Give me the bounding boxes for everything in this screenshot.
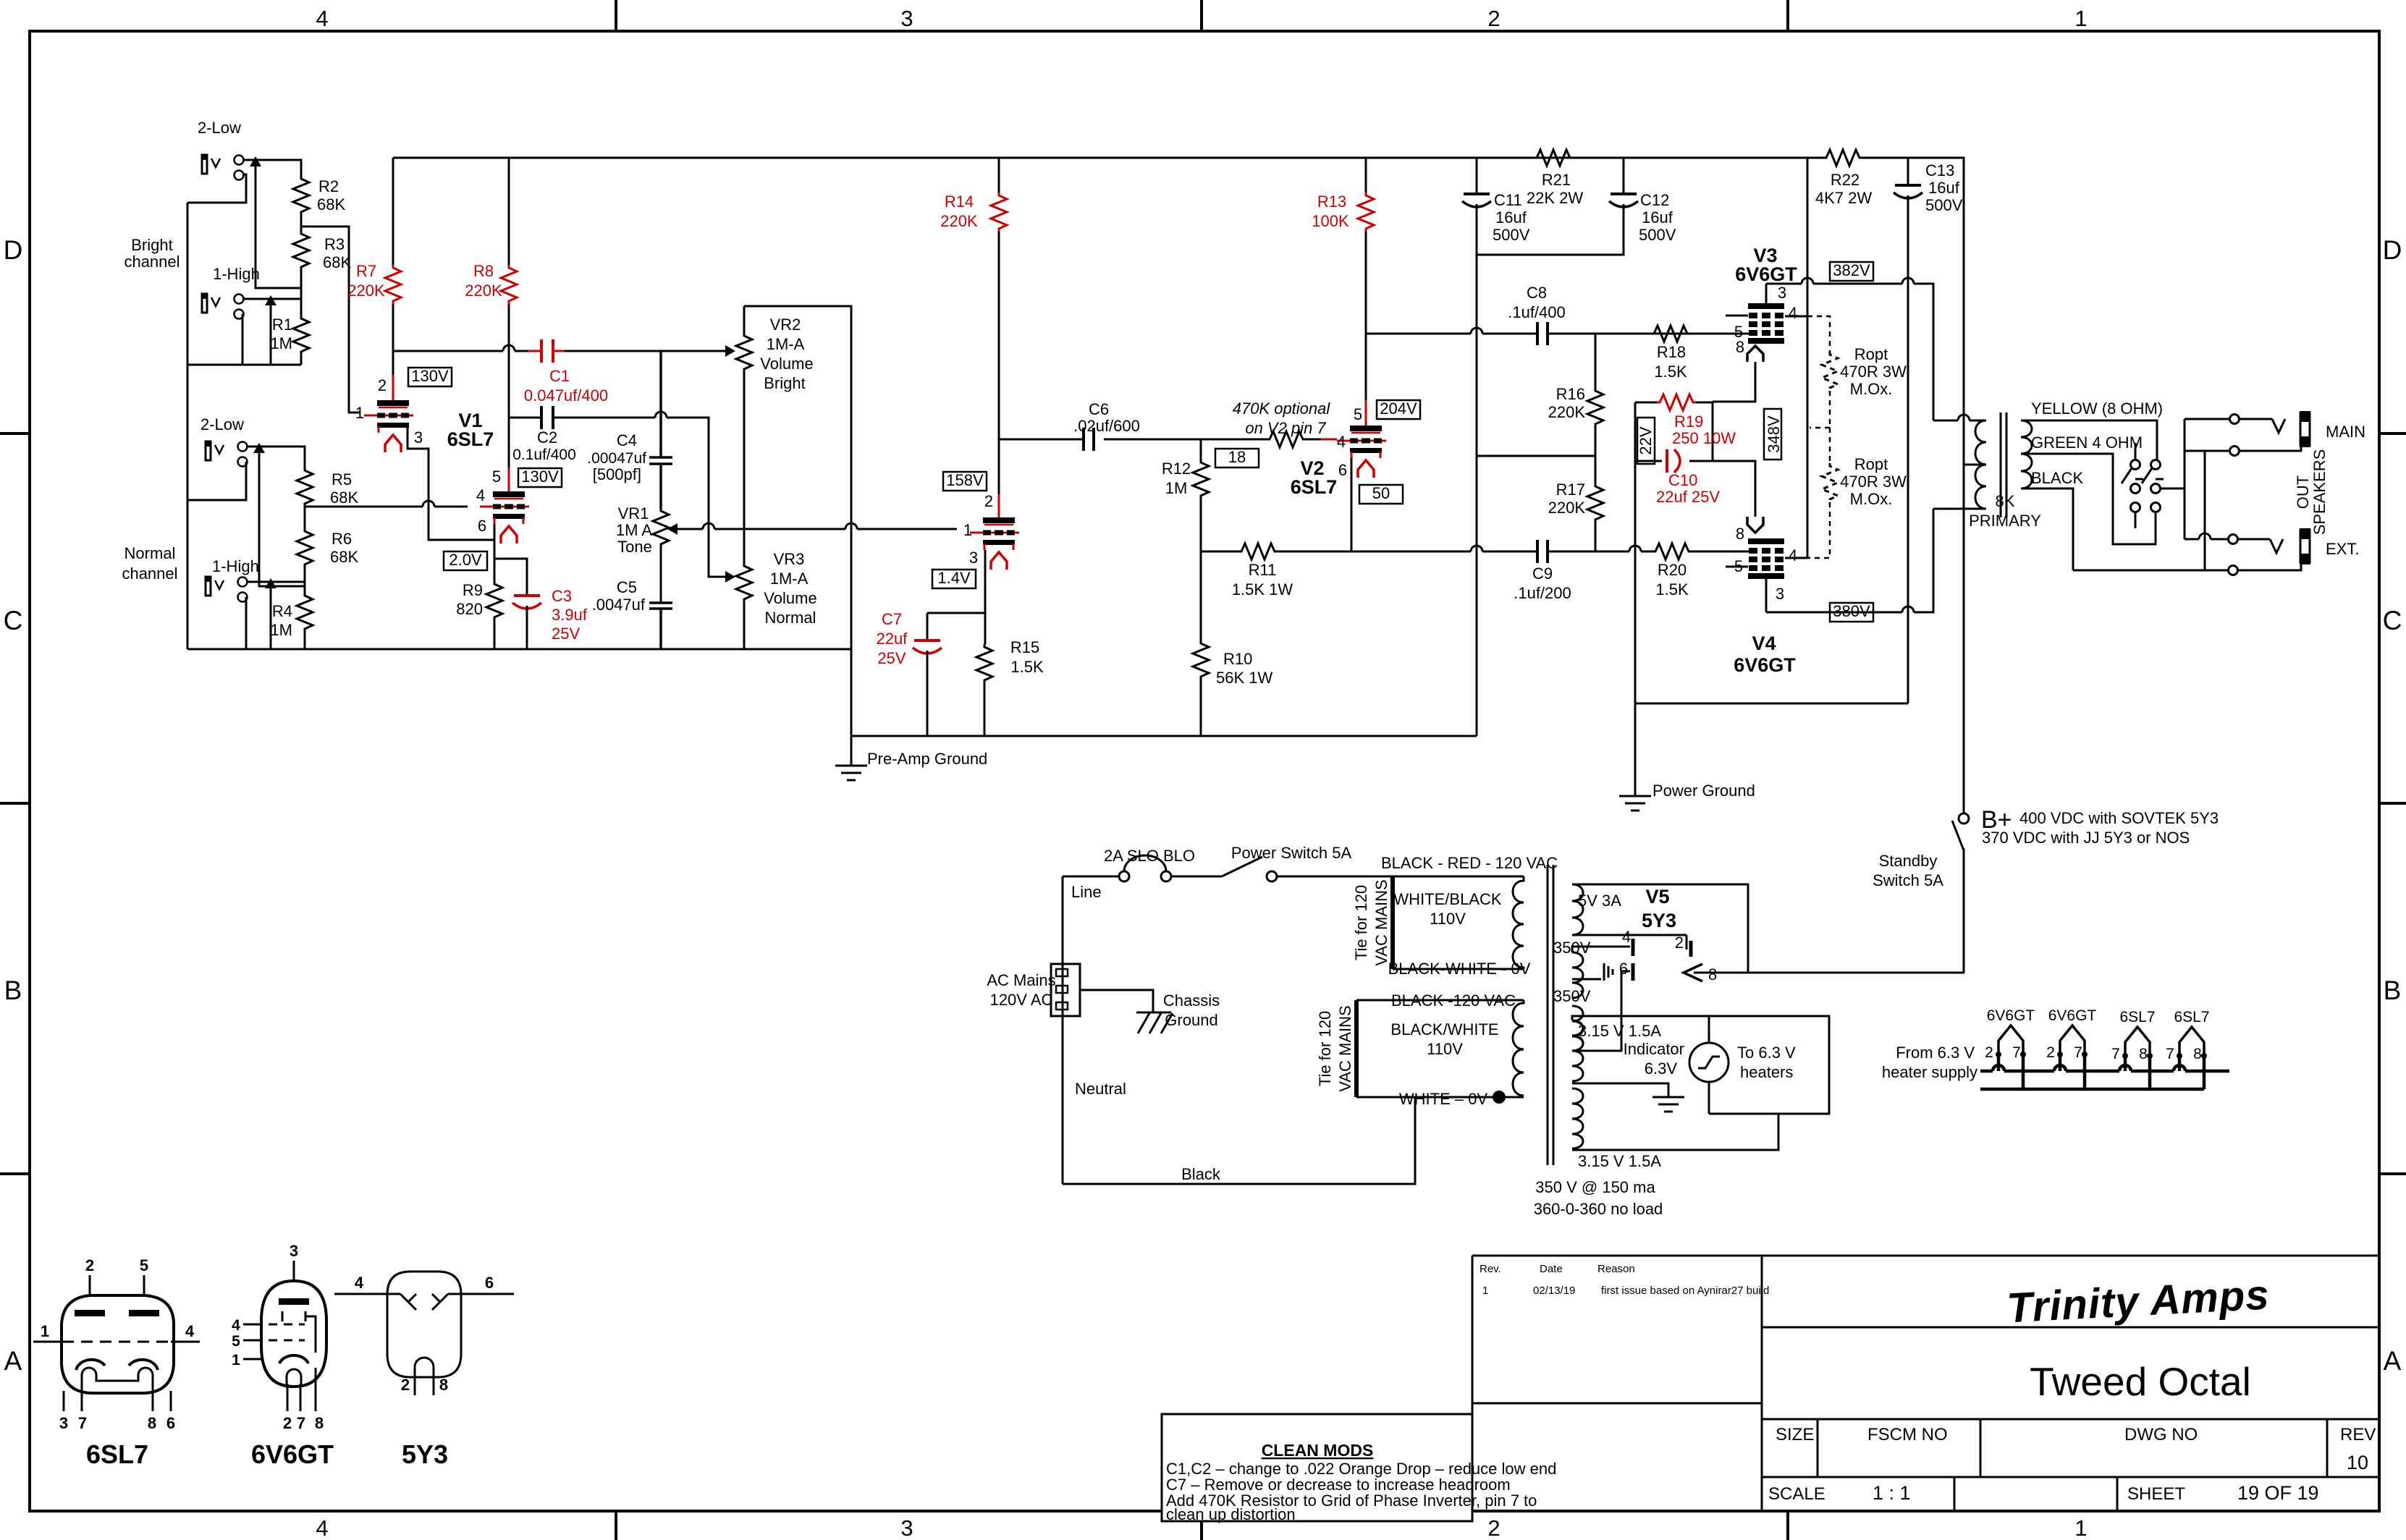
svg-text:VR2: VR2 bbox=[770, 316, 801, 334]
svg-text:8K: 8K bbox=[1996, 492, 2015, 510]
svg-text:Tone: Tone bbox=[617, 538, 652, 556]
resistor R22 bbox=[1815, 150, 1872, 207]
svg-text:25V: 25V bbox=[552, 625, 580, 643]
neutral bottom wire bbox=[1063, 1097, 1415, 1184]
svg-text:BLACK: BLACK bbox=[2031, 469, 2083, 487]
wire R8 bottom to V1b plate bbox=[508, 304, 510, 467]
svg-text:REV: REV bbox=[2340, 1425, 2376, 1444]
svg-text:PRIMARY: PRIMARY bbox=[1969, 512, 2041, 530]
svg-text:1.4V: 1.4V bbox=[937, 569, 971, 587]
svg-text:channel: channel bbox=[122, 564, 177, 583]
wire VR1 wiper to V2a grid bbox=[672, 523, 957, 529]
tube V1 triode A bbox=[355, 376, 423, 452]
resistor R12 bbox=[1162, 439, 1209, 551]
svg-text:7: 7 bbox=[2166, 1046, 2174, 1062]
wire BLACK bbox=[2021, 488, 2227, 570]
svg-text:C13: C13 bbox=[1925, 161, 1954, 179]
svg-text:6SL7: 6SL7 bbox=[86, 1439, 148, 1469]
svg-text:MAIN: MAIN bbox=[2326, 423, 2365, 441]
svg-text:R6: R6 bbox=[332, 530, 352, 548]
svg-text:C10: C10 bbox=[1668, 471, 1697, 489]
svg-text:5: 5 bbox=[492, 467, 501, 486]
wire jack4 tip to R6/R4 junction bbox=[246, 567, 305, 593]
wire V3 plate to 382V rail bbox=[1765, 284, 1768, 303]
capacitor C3 electrolytic bbox=[512, 587, 588, 649]
svg-text:7: 7 bbox=[78, 1414, 87, 1432]
resistor 470K optional bbox=[1201, 399, 1330, 447]
capacitor C4 bbox=[587, 351, 672, 508]
svg-text:22uf: 22uf bbox=[877, 630, 908, 648]
svg-text:6SL7: 6SL7 bbox=[2119, 1009, 2155, 1025]
resistor R3 bbox=[293, 231, 351, 271]
svg-text:C4: C4 bbox=[617, 431, 637, 449]
svg-text:VAC MAINS: VAC MAINS bbox=[1336, 1005, 1354, 1091]
svg-text:B: B bbox=[4, 976, 22, 1005]
wire R5/R6 junction + V1b grid line bbox=[305, 507, 468, 528]
svg-text:Ropt: Ropt bbox=[1854, 455, 1888, 473]
svg-text:To 6.3 V: To 6.3 V bbox=[1737, 1044, 1796, 1062]
svg-text:first issue based on Aynirar27: first issue based on Aynirar27 build bbox=[1601, 1285, 1769, 1297]
jack3 shorting contact arrow bbox=[259, 447, 305, 586]
svg-text:10: 10 bbox=[2347, 1452, 2368, 1473]
svg-text:3.9uf: 3.9uf bbox=[552, 606, 588, 624]
svg-text:6: 6 bbox=[166, 1414, 175, 1432]
svg-text:C: C bbox=[4, 606, 23, 635]
svg-text:3: 3 bbox=[900, 6, 913, 31]
svg-text:C9: C9 bbox=[1532, 564, 1553, 583]
wire YELLOW 8 OHM bbox=[2021, 420, 2157, 460]
svg-text:16uf: 16uf bbox=[1495, 208, 1527, 227]
svg-text:R17: R17 bbox=[1556, 481, 1585, 499]
svg-text:R13: R13 bbox=[1317, 192, 1346, 211]
svg-text:heater supply: heater supply bbox=[1882, 1063, 1977, 1081]
wire V3 cathode to R19 bbox=[1713, 362, 1755, 402]
svg-text:Switch 5A: Switch 5A bbox=[1873, 871, 1943, 889]
HV center tap ground bbox=[1572, 963, 1613, 981]
svg-text:C3: C3 bbox=[552, 587, 572, 605]
svg-text:3: 3 bbox=[290, 1242, 298, 1260]
jack1 shorting contact arrow bbox=[256, 160, 301, 288]
B+ distribution top rail bbox=[393, 158, 1964, 813]
svg-text:C5: C5 bbox=[617, 578, 637, 596]
resistor R2 bbox=[293, 176, 345, 215]
power transformer primary coils bbox=[1356, 969, 1524, 1097]
wire jack1 sleeve to bus bbox=[187, 174, 246, 203]
svg-text:500V: 500V bbox=[1925, 196, 1963, 214]
voltage box 158V bbox=[943, 471, 987, 491]
voltage box 348V vertical bbox=[1764, 409, 1783, 460]
svg-text:R3: R3 bbox=[324, 235, 345, 253]
svg-text:.02uf/600: .02uf/600 bbox=[1073, 417, 1140, 435]
380V plate rail V4 bbox=[1766, 509, 1933, 612]
svg-text:Chassis: Chassis bbox=[1163, 991, 1220, 1010]
svg-text:DWG NO: DWG NO bbox=[2124, 1425, 2198, 1444]
svg-text:2: 2 bbox=[401, 1376, 410, 1394]
svg-text:Normal: Normal bbox=[124, 544, 176, 562]
svg-text:120V AC: 120V AC bbox=[990, 991, 1053, 1009]
svg-text:820: 820 bbox=[456, 600, 483, 618]
heater chain 6SL7 tube 4 bbox=[2166, 1009, 2209, 1062]
svg-text:BLACK/WHITE: BLACK/WHITE bbox=[1390, 1020, 1498, 1038]
wire V4 pin4 to screen vertical bbox=[1785, 557, 1807, 559]
svg-text:110V: 110V bbox=[1430, 910, 1466, 928]
svg-text:Volume: Volume bbox=[760, 355, 813, 373]
svg-text:8: 8 bbox=[1708, 965, 1717, 983]
svg-text:C7: C7 bbox=[882, 610, 902, 628]
svg-text:4: 4 bbox=[232, 1317, 240, 1334]
wire R16/R17 junction to dropper bbox=[1477, 455, 1595, 457]
Ropt dashed resistor upper bbox=[1807, 316, 1838, 463]
svg-text:R16: R16 bbox=[1556, 385, 1585, 403]
normal channel input jack 2-Low bbox=[200, 415, 248, 467]
svg-text:220K: 220K bbox=[1548, 499, 1586, 517]
heater chain 6V6GT tube 2 bbox=[2046, 1007, 2096, 1061]
wire V4 cathode from C10 bbox=[1713, 461, 1755, 517]
wire C11 bottom / main dropper vertical bbox=[1476, 204, 1478, 736]
6.3V center tap ground bbox=[1572, 1083, 1668, 1097]
svg-text:1: 1 bbox=[355, 404, 364, 422]
svg-text:Black: Black bbox=[1181, 1165, 1221, 1183]
svg-text:VAC MAINS: VAC MAINS bbox=[1372, 879, 1390, 965]
title block bbox=[1762, 1327, 2379, 1511]
resistor R4 bbox=[270, 593, 313, 639]
382V plate rail bbox=[1766, 278, 1933, 420]
svg-text:6SL7: 6SL7 bbox=[2174, 1009, 2209, 1025]
6SL7 base diagram bbox=[62, 1295, 174, 1393]
wire speaker common vertical bbox=[2184, 419, 2186, 539]
voltage box 130V at V1b bbox=[518, 467, 562, 487]
wire C1 line V1a plate to VR2 bbox=[393, 345, 730, 351]
Pre-Amp ground symbol bbox=[835, 736, 987, 780]
svg-text:.00047uf: .00047uf bbox=[587, 450, 646, 467]
6V6GT base diagram bbox=[232, 1242, 334, 1469]
svg-text:OUT: OUT bbox=[2294, 475, 2312, 509]
svg-text:WHITE/BLACK: WHITE/BLACK bbox=[1393, 890, 1501, 908]
svg-text:3.15 V 1.5A: 3.15 V 1.5A bbox=[1578, 1152, 1661, 1170]
svg-text:350V: 350V bbox=[1553, 987, 1591, 1005]
svg-text:1-High: 1-High bbox=[213, 265, 260, 283]
svg-text:16uf: 16uf bbox=[1928, 179, 1960, 197]
svg-text:7: 7 bbox=[2074, 1044, 2082, 1061]
svg-text:5Y3: 5Y3 bbox=[1642, 910, 1676, 931]
svg-text:SPEAKERS: SPEAKERS bbox=[2310, 449, 2329, 536]
wire R3 to R1 bbox=[300, 215, 303, 316]
wire line vertical bbox=[1062, 876, 1064, 1184]
svg-text:220K: 220K bbox=[940, 212, 978, 230]
svg-text:R1: R1 bbox=[272, 316, 292, 334]
wire V2a cathode to R15/C7 bbox=[927, 550, 985, 644]
svg-text:2: 2 bbox=[1985, 1044, 1993, 1061]
jack2 shorting contact arrow bbox=[270, 299, 272, 365]
wire C8 line from V2b plate to V3 grid bbox=[1366, 328, 1751, 334]
svg-text:68K: 68K bbox=[317, 195, 345, 213]
svg-text:1: 1 bbox=[2074, 1515, 2087, 1540]
svg-text:Volume: Volume bbox=[764, 589, 816, 607]
svg-text:SHEET: SHEET bbox=[2127, 1484, 2185, 1504]
svg-text:1: 1 bbox=[1482, 1285, 1488, 1297]
resistor R14 bbox=[940, 158, 1007, 232]
svg-text:7: 7 bbox=[2012, 1044, 2021, 1061]
5Y3 base diagram bbox=[334, 1272, 514, 1469]
svg-text:R7: R7 bbox=[356, 262, 376, 280]
resistor R9 bbox=[456, 581, 502, 620]
svg-text:8: 8 bbox=[315, 1414, 324, 1432]
svg-text:1M A: 1M A bbox=[616, 521, 652, 539]
svg-text:R4: R4 bbox=[272, 602, 292, 620]
svg-text:3: 3 bbox=[900, 1515, 913, 1540]
svg-text:Line: Line bbox=[1071, 883, 1102, 901]
svg-text:AC Mains: AC Mains bbox=[987, 971, 1055, 989]
preamp ground rail left section bbox=[187, 649, 1477, 736]
svg-text:Neutral: Neutral bbox=[1075, 1080, 1126, 1098]
wire jack2 sleeve down bbox=[242, 314, 244, 365]
capacitor C5 bbox=[592, 578, 672, 649]
5Y3 plate pin 6 bbox=[1572, 971, 1630, 1051]
svg-text:220K: 220K bbox=[1548, 403, 1586, 421]
svg-text:EXT.: EXT. bbox=[2326, 540, 2359, 558]
svg-text:8: 8 bbox=[2193, 1046, 2202, 1062]
power transformer core bbox=[1548, 865, 1553, 1165]
svg-text:1M-A: 1M-A bbox=[767, 335, 805, 353]
revision table bbox=[1472, 1256, 2379, 1511]
svg-text:Tie for 120: Tie for 120 bbox=[1352, 885, 1370, 960]
wire C6 line from V2a plate bbox=[999, 439, 1201, 441]
svg-text:1-High: 1-High bbox=[212, 557, 259, 575]
svg-text:4: 4 bbox=[355, 1274, 364, 1292]
svg-text:C1: C1 bbox=[549, 367, 570, 385]
svg-text:R5: R5 bbox=[332, 470, 352, 488]
svg-text:5V 3A: 5V 3A bbox=[1578, 892, 1621, 910]
resistor R5 bbox=[297, 467, 358, 507]
svg-text:500V: 500V bbox=[1639, 226, 1676, 244]
svg-text:22K 2W: 22K 2W bbox=[1527, 189, 1583, 207]
svg-text:V5: V5 bbox=[1645, 886, 1669, 907]
svg-text:R11: R11 bbox=[1249, 561, 1277, 579]
tie bars for 120V mains bbox=[1356, 876, 1393, 1097]
svg-text:68K: 68K bbox=[330, 548, 358, 566]
svg-text:130V: 130V bbox=[521, 467, 559, 486]
svg-text:C12: C12 bbox=[1640, 191, 1669, 209]
svg-text:6: 6 bbox=[1619, 960, 1628, 978]
tube V2 triode B bbox=[1321, 405, 1386, 479]
svg-text:Ground: Ground bbox=[1165, 1011, 1217, 1029]
svg-text:5: 5 bbox=[1354, 405, 1362, 423]
svg-text:3: 3 bbox=[59, 1414, 68, 1432]
wire jack1 tip to R2 top bbox=[242, 160, 301, 176]
resistor R1 bbox=[270, 316, 309, 355]
svg-text:C2: C2 bbox=[537, 428, 557, 447]
resistor R7 bbox=[347, 158, 401, 304]
svg-text:clean up distortion: clean up distortion bbox=[1166, 1505, 1296, 1523]
svg-text:V4: V4 bbox=[1752, 632, 1776, 654]
svg-text:2: 2 bbox=[378, 376, 387, 394]
standby switch bbox=[1873, 813, 1969, 973]
svg-text:6: 6 bbox=[478, 517, 486, 535]
output transformer bbox=[1933, 412, 2006, 517]
capacitor C10 electrolytic bbox=[1635, 449, 1720, 506]
svg-text:1: 1 bbox=[2074, 6, 2087, 31]
resistor R15 bbox=[976, 638, 1044, 736]
svg-text:Tweed Octal: Tweed Octal bbox=[2030, 1359, 2251, 1404]
svg-text:A: A bbox=[4, 1346, 22, 1376]
svg-text:5Y3: 5Y3 bbox=[402, 1439, 448, 1469]
svg-text:6V6GT: 6V6GT bbox=[251, 1439, 334, 1469]
wire jack2 tip to R3/R1 junction bbox=[242, 298, 301, 300]
capacitor C13 electrolytic bbox=[1635, 158, 1963, 703]
svg-text:6V6GT: 6V6GT bbox=[1735, 263, 1797, 285]
svg-text:6: 6 bbox=[1338, 461, 1347, 479]
svg-text:VR1: VR1 bbox=[618, 504, 649, 522]
svg-text:250 10W: 250 10W bbox=[1672, 429, 1736, 447]
svg-text:4K7 2W: 4K7 2W bbox=[1815, 189, 1872, 207]
svg-text:Power Switch 5A: Power Switch 5A bbox=[1231, 844, 1352, 862]
svg-text:4: 4 bbox=[1337, 433, 1346, 451]
svg-text:R20: R20 bbox=[1658, 561, 1687, 579]
voltage box 2.0V bbox=[444, 551, 487, 570]
svg-text:50: 50 bbox=[1372, 484, 1390, 502]
svg-text:.1uf/400: .1uf/400 bbox=[1508, 303, 1566, 321]
svg-text:110V: 110V bbox=[1427, 1040, 1463, 1058]
svg-text:6SL7: 6SL7 bbox=[1291, 476, 1338, 498]
svg-text:4: 4 bbox=[185, 1322, 195, 1340]
svg-text:8: 8 bbox=[439, 1376, 448, 1394]
svg-text:SCALE: SCALE bbox=[1768, 1484, 1825, 1504]
svg-text:WHITE – 0V: WHITE – 0V bbox=[1399, 1090, 1488, 1108]
svg-text:2: 2 bbox=[1675, 934, 1684, 952]
svg-text:.1uf/200: .1uf/200 bbox=[1514, 584, 1571, 602]
tube V1 triode B bbox=[476, 467, 529, 543]
svg-text:500V: 500V bbox=[1493, 226, 1530, 244]
svg-text:1: 1 bbox=[963, 521, 972, 539]
svg-text:6V6GT: 6V6GT bbox=[1734, 654, 1796, 676]
svg-text:2-Low: 2-Low bbox=[198, 119, 241, 137]
voltage box 204V bbox=[1377, 399, 1420, 419]
svg-text:From 6.3 V: From 6.3 V bbox=[1896, 1044, 1975, 1062]
svg-text:Standby: Standby bbox=[1879, 852, 1938, 870]
voltage box 50 bbox=[1359, 484, 1403, 504]
svg-text:3.15 V 1.5A: 3.15 V 1.5A bbox=[1578, 1022, 1661, 1040]
wire MAIN jack sleeve bbox=[2185, 445, 2301, 451]
svg-text:R14: R14 bbox=[945, 192, 974, 211]
resistor R10 bbox=[1193, 551, 1272, 736]
wire V2b cathode down bbox=[1351, 458, 1353, 551]
capacitor C6 bbox=[1073, 400, 1140, 451]
svg-text:A: A bbox=[2384, 1346, 2402, 1376]
svg-text:360-0-360 no load: 360-0-360 no load bbox=[1534, 1200, 1663, 1218]
svg-text:6V6GT: 6V6GT bbox=[1987, 1007, 2035, 1024]
svg-text:Power Ground: Power Ground bbox=[1652, 782, 1755, 800]
wire R2/R3 junction to V1a grid bbox=[301, 227, 360, 412]
svg-text:R15: R15 bbox=[1010, 638, 1039, 656]
svg-text:2: 2 bbox=[85, 1256, 94, 1274]
svg-text:220K: 220K bbox=[465, 282, 502, 300]
svg-text:2: 2 bbox=[1487, 6, 1500, 31]
svg-text:M.Ox.: M.Ox. bbox=[1850, 380, 1893, 398]
wire jack3 sleeve to bus bbox=[187, 462, 246, 500]
svg-text:1.5K: 1.5K bbox=[1655, 580, 1689, 598]
title block fields bbox=[1768, 1425, 2376, 1504]
svg-text:5: 5 bbox=[140, 1256, 148, 1274]
svg-text:3: 3 bbox=[1776, 585, 1784, 603]
capacitor C8 bbox=[1508, 284, 1566, 345]
svg-text:C11: C11 bbox=[1494, 191, 1522, 209]
resistor R18 bbox=[1651, 326, 1690, 381]
svg-text:22uf 25V: 22uf 25V bbox=[1656, 488, 1720, 506]
svg-text:400 VDC with SOVTEK 5Y3: 400 VDC with SOVTEK 5Y3 bbox=[2019, 809, 2219, 827]
svg-text:16uf: 16uf bbox=[1642, 208, 1673, 227]
bright channel input jack 1-High bbox=[201, 265, 260, 319]
svg-text:370 VDC with JJ 5Y3 or NOS: 370 VDC with JJ 5Y3 or NOS bbox=[1982, 829, 2190, 847]
tube V4 6V6GT bbox=[1726, 517, 1797, 603]
svg-text:350 V @ 150 ma: 350 V @ 150 ma bbox=[1535, 1178, 1655, 1196]
indicator lamp bbox=[1624, 1016, 1796, 1114]
voltage box 380V bbox=[1830, 602, 1873, 622]
capacitor C12 electrolytic bbox=[1477, 158, 1676, 255]
svg-text:SIZE: SIZE bbox=[1776, 1425, 1814, 1444]
MAIN jack bbox=[2300, 411, 2365, 447]
svg-text:Rev.: Rev. bbox=[1480, 1263, 1501, 1275]
wire C2 line V1b plate to VR3 wiper bbox=[509, 412, 730, 577]
svg-text:Normal: Normal bbox=[765, 609, 816, 627]
svg-text:1M: 1M bbox=[270, 334, 292, 352]
svg-text:19 OF 19: 19 OF 19 bbox=[2237, 1482, 2319, 1504]
svg-text:2: 2 bbox=[1487, 1515, 1500, 1540]
svg-text:Pre-Amp Ground: Pre-Amp Ground bbox=[867, 750, 987, 768]
svg-text:2.0V: 2.0V bbox=[449, 551, 482, 569]
wire bright local ground bbox=[187, 355, 301, 365]
svg-text:8: 8 bbox=[148, 1414, 156, 1432]
wire GREEN 4 OHM bbox=[2021, 454, 2156, 544]
svg-text:C: C bbox=[2383, 606, 2402, 635]
svg-text:3: 3 bbox=[969, 549, 978, 567]
svg-text:4: 4 bbox=[316, 6, 328, 31]
wire R11 line bbox=[1201, 546, 1751, 551]
svg-text:C8: C8 bbox=[1527, 284, 1547, 302]
svg-text:1.5K: 1.5K bbox=[1010, 658, 1044, 676]
resistor R8 bbox=[465, 158, 517, 304]
capacitor C2 bbox=[512, 406, 576, 463]
svg-text:1M: 1M bbox=[1165, 479, 1188, 497]
VR1 tone potentiometer bbox=[616, 504, 669, 603]
svg-text:25V: 25V bbox=[877, 649, 906, 667]
svg-text:D: D bbox=[2383, 235, 2402, 265]
wire EXT jack tip bbox=[2185, 533, 2270, 539]
svg-text:C6: C6 bbox=[1089, 400, 1109, 418]
voltage box 130V at V1a bbox=[408, 367, 452, 386]
svg-text:CLEAN MODS: CLEAN MODS bbox=[1262, 1441, 1374, 1460]
speaker selector switch bbox=[2122, 443, 2185, 528]
5Y3 filament pins 2 and 8 bbox=[1686, 935, 1688, 949]
resistor R13 bbox=[1312, 158, 1374, 232]
power switch bbox=[1222, 844, 1351, 881]
svg-text:8: 8 bbox=[1736, 338, 1744, 356]
svg-text:470R 3W: 470R 3W bbox=[1840, 473, 1907, 491]
capacitor C9 bbox=[1514, 540, 1571, 602]
svg-text:348V: 348V bbox=[1765, 415, 1783, 453]
AC line wire bbox=[1063, 876, 1524, 878]
VR2 volume bright potentiometer bbox=[736, 306, 851, 736]
resistor R17 bbox=[1548, 481, 1603, 551]
svg-text:130V: 130V bbox=[411, 367, 449, 385]
svg-text:3: 3 bbox=[414, 428, 423, 447]
wire R4 bottom to ground rail bbox=[304, 632, 306, 649]
svg-text:Indicator: Indicator bbox=[1624, 1040, 1684, 1058]
voltage box 382V bbox=[1830, 261, 1873, 281]
wire R9 bottom to rail bbox=[494, 620, 496, 649]
svg-text:Bright: Bright bbox=[131, 236, 172, 254]
svg-text:380V: 380V bbox=[1833, 602, 1870, 620]
svg-text:channel: channel bbox=[124, 253, 180, 271]
